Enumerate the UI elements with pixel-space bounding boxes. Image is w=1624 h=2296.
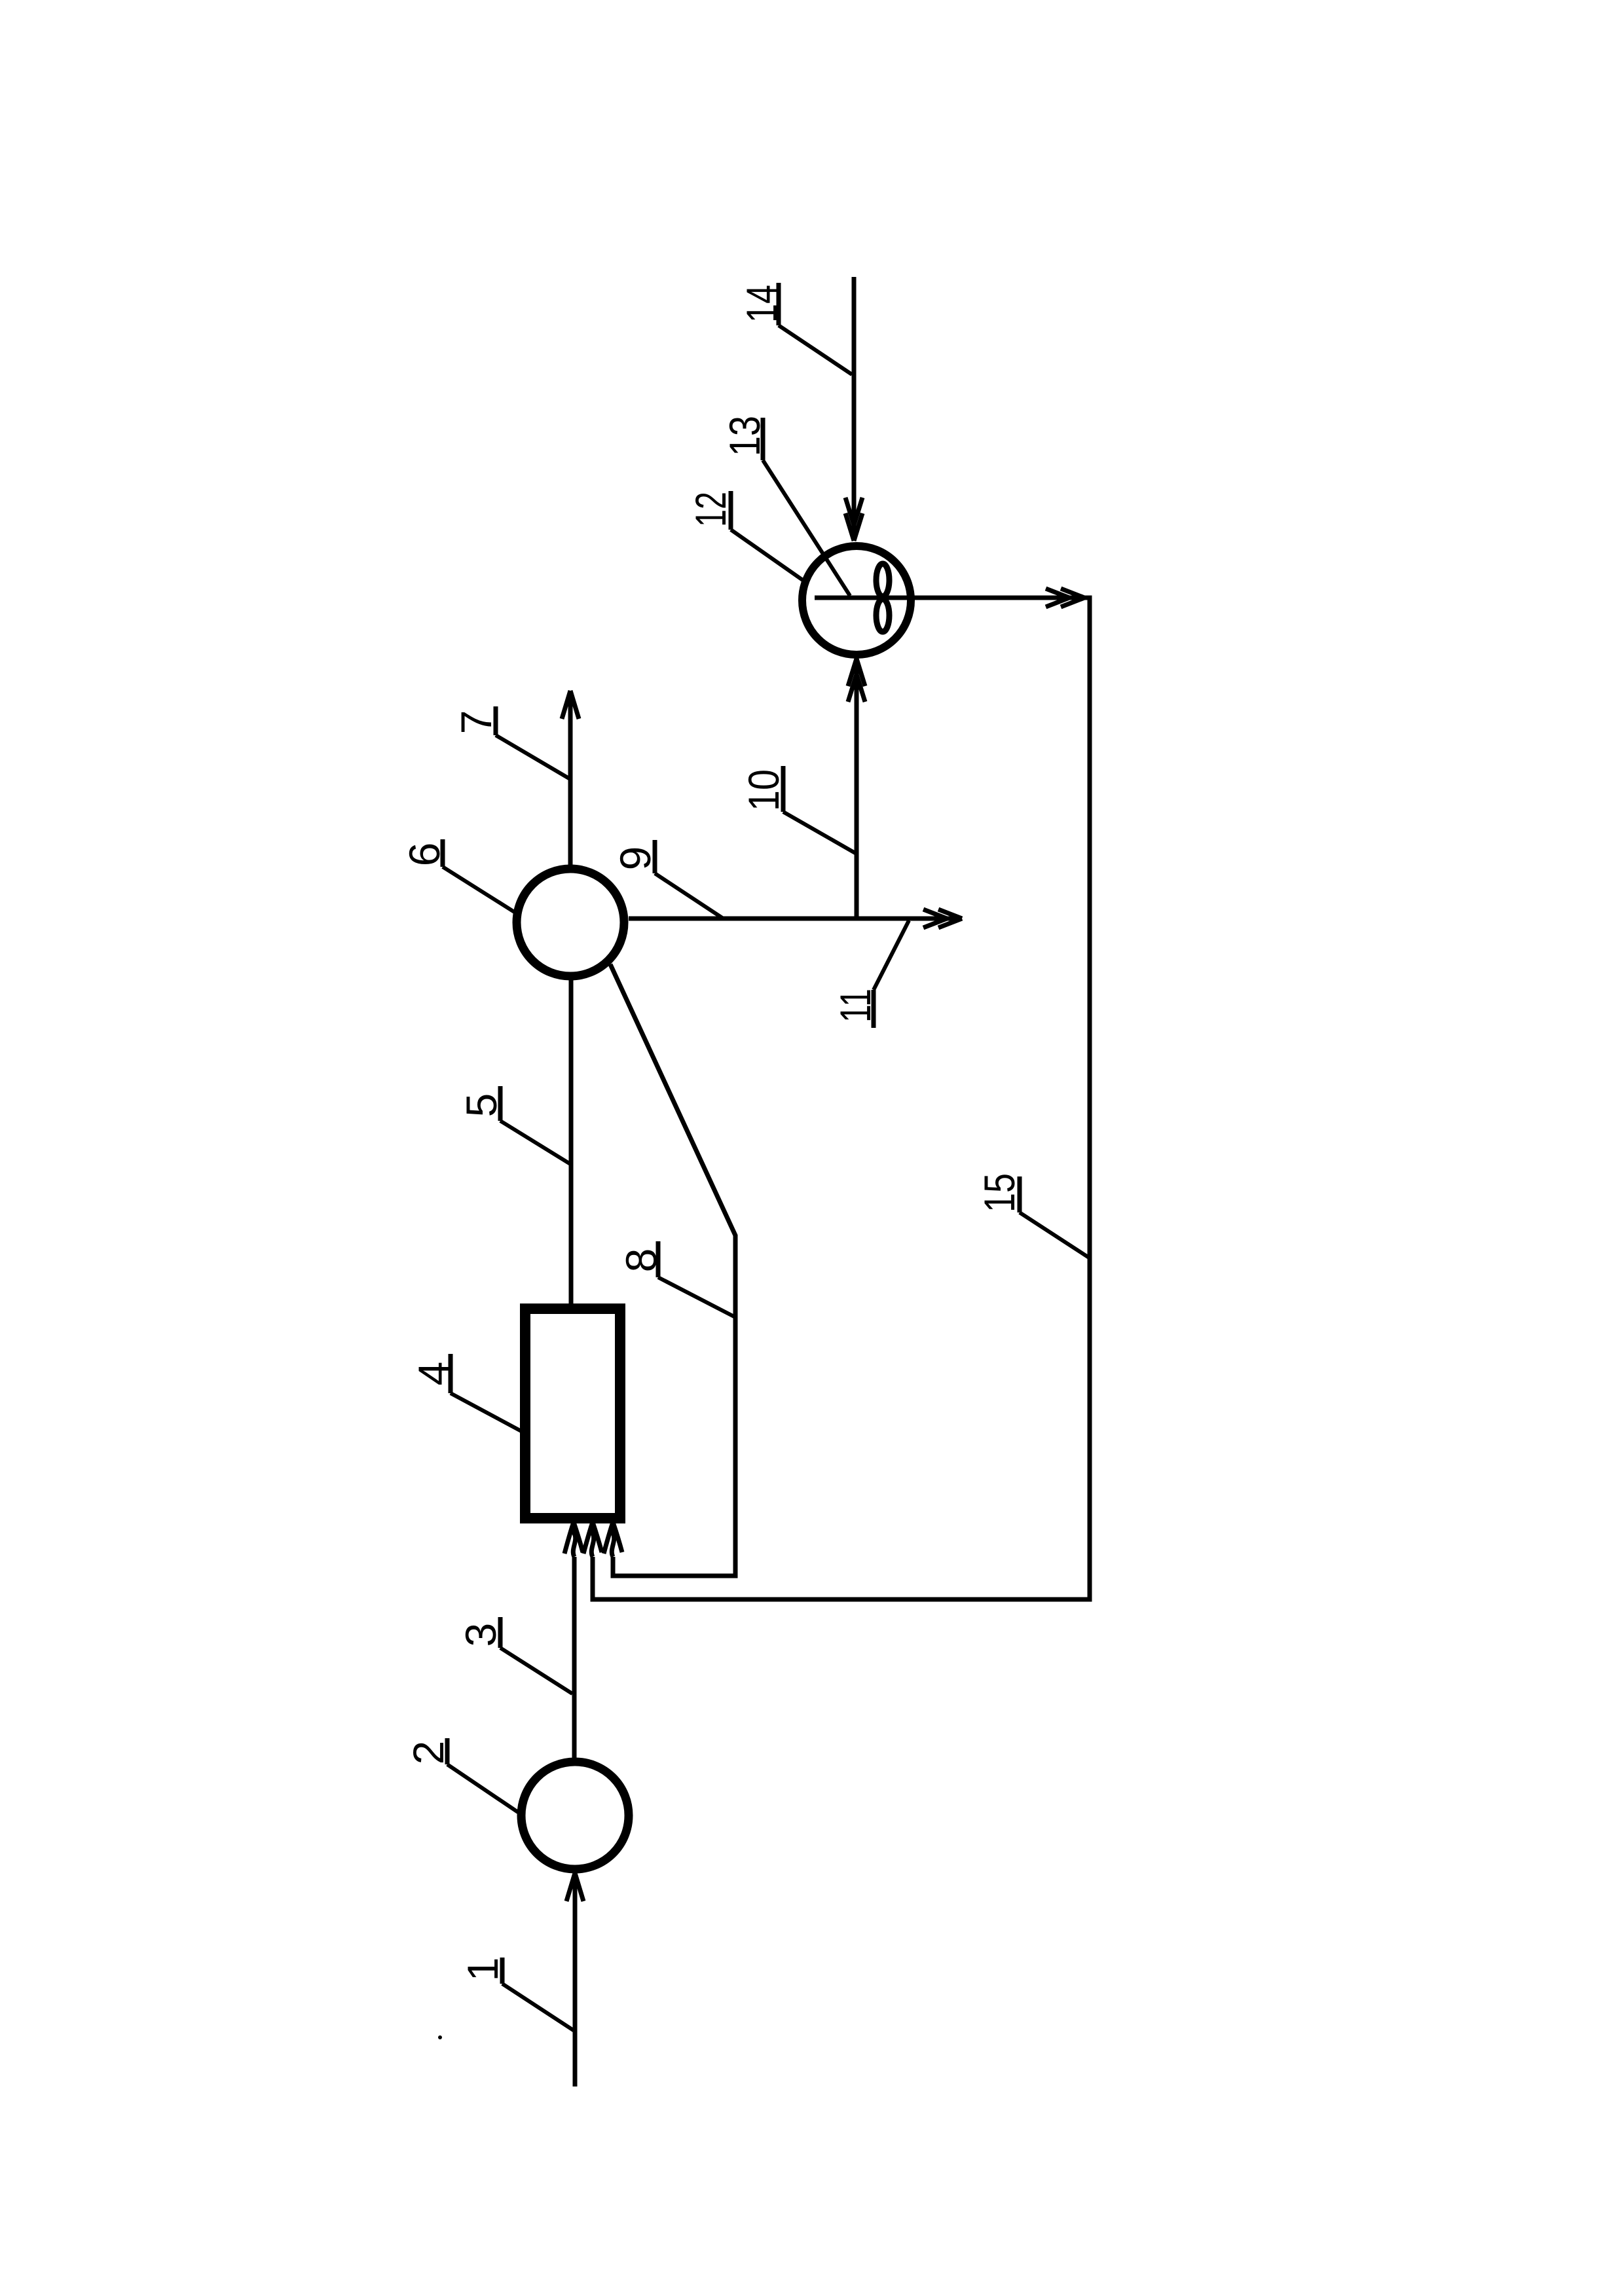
wavy inlet arrow of line 8 into reactor — [612, 1524, 614, 1557]
propeller figure-8 (13) inside fan — [876, 564, 889, 596]
svg-text:9: 9 — [611, 847, 659, 871]
label 8 — [617, 1241, 734, 1317]
label 2 — [404, 1738, 518, 1812]
arrowhead 11 (double chevron) — [923, 909, 962, 928]
stream line 3 (pump 2 to reactor 4) — [572, 1557, 577, 1759]
reactor vessel 4 (rectangle) — [525, 1309, 620, 1518]
label 3 — [456, 1617, 572, 1694]
arrowhead on line 10 (double chevron up) — [848, 659, 865, 702]
wavy inlet arrow of line 15 into reactor — [591, 1524, 593, 1557]
bottoms line 9/11 (separator 6 right, horizontal, arrow 11 out) — [629, 917, 960, 921]
fan / blower circle 12 — [802, 546, 911, 655]
wavy inlet arrow of line 3 into reactor — [573, 1524, 575, 1557]
label 5 — [457, 1086, 570, 1164]
svg-text:7: 7 — [452, 710, 500, 735]
label 12 — [686, 491, 805, 582]
label 9 — [611, 840, 722, 918]
recycle line 8 (separator 6 bottom to reactor 4 bottom) — [610, 964, 735, 1576]
label 1 — [458, 1958, 574, 2031]
svg-text:12: 12 — [686, 492, 735, 527]
stream line 5 (reactor 4 to separator 6) — [569, 979, 574, 1305]
separator circle 6 — [517, 869, 624, 976]
stray speck — [438, 2035, 442, 2039]
label 14 — [737, 283, 852, 374]
label 10 — [739, 766, 855, 853]
svg-text:10: 10 — [739, 769, 788, 811]
pump circle 2 — [521, 1762, 629, 1869]
label 4 — [409, 1354, 521, 1431]
label 15 (recycle loop) — [975, 1173, 1089, 1258]
arrowhead on line 14 (double chevron down) — [845, 498, 862, 541]
shaft / outlet line of fan 12 with corner arrow, into loop 15 — [593, 598, 1090, 1599]
label 6 — [400, 839, 515, 913]
arrowhead on line 1 — [566, 1873, 583, 1901]
svg-text:3: 3 — [456, 1623, 505, 1647]
label 11 — [831, 920, 909, 1028]
svg-text:15: 15 — [975, 1173, 1024, 1212]
stream line 1 (feed into pump 2) — [573, 1874, 578, 2086]
label 13 (leader to propeller shaft) — [720, 416, 850, 596]
svg-text:1: 1 — [458, 1958, 507, 1982]
line 14 (feed down into fan 12) — [852, 277, 857, 539]
line 10 (junction up into fan 12) — [855, 659, 859, 919]
arrowhead at corner (double chevron right) — [1046, 589, 1084, 607]
overhead stream arrow 7 (out of separator 6) — [568, 692, 573, 865]
label 7 — [452, 706, 569, 778]
